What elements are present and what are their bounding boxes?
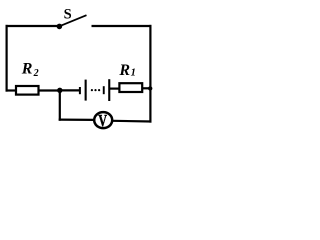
wire voltmeter-branch vertical drop (59, 90, 61, 121)
svg-text:1: 1 (131, 67, 136, 78)
svg-text:R: R (118, 62, 130, 79)
wire top-left horizontal (to switch) (6, 25, 59, 27)
switch S pivot dot (57, 24, 63, 30)
battery cell2 short plate (103, 86, 105, 94)
wire bottom-left horizontal (59, 118, 94, 121)
node A junction dot (57, 88, 62, 93)
svg-text:S: S (64, 6, 72, 22)
svg-text:V: V (98, 112, 107, 130)
wire battery to R1 (109, 87, 119, 89)
resistor R1 box (119, 83, 142, 92)
resistor R2 box (16, 86, 39, 95)
battery cell1 short plate (79, 87, 81, 94)
battery cell2 long plate (108, 79, 110, 101)
node B junction dot (148, 86, 152, 90)
wire junction to battery (60, 89, 80, 91)
wire bottom-right horizontal (113, 120, 152, 123)
switch S blade (open) (61, 15, 87, 26)
svg-text:2: 2 (33, 68, 39, 79)
wire right vertical (149, 25, 151, 123)
wire into R2 (6, 89, 17, 91)
wire left vertical (5, 25, 7, 92)
wire top-right horizontal (switch to right corner) (92, 25, 152, 27)
voltmeter V circle (94, 112, 112, 128)
battery cell1 long plate (85, 80, 87, 101)
wire R2 to junction (39, 89, 63, 91)
svg-text:R: R (21, 60, 33, 77)
wire R1 to right junction (142, 87, 151, 89)
battery ellipsis dots (91, 89, 93, 91)
